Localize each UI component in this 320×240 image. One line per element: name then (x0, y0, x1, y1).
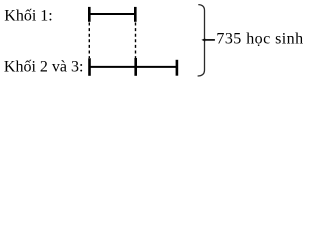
brace (198, 5, 215, 76)
tick top-left (88, 7, 91, 22)
svg-text:Khối 1:: Khối 1: (4, 7, 52, 24)
tick bottom-middle (134, 58, 137, 76)
svg-text:Khối 2 và 3:: Khối 2 và 3: (4, 59, 84, 76)
svg-text:735 học sinh: 735 học sinh (216, 31, 303, 48)
bar segment top (Khoi 1) (88, 13, 136, 15)
bar segment bottom (Khoi 2 va 3) (89, 66, 178, 68)
dashed guide line middle (135, 23, 137, 59)
tick bottom-right (176, 60, 179, 76)
dashed guide line left (88, 23, 90, 59)
tick top-right (134, 7, 137, 22)
tick bottom-left (88, 58, 91, 76)
